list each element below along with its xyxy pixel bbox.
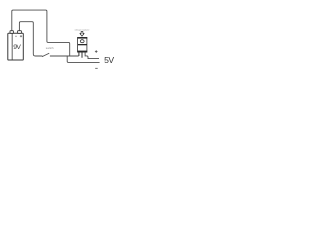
regulator middle leg: [81, 52, 83, 58]
svg-text:voltage regulator: voltage regulator: [75, 29, 90, 32]
svg-text:5V: 5V: [104, 55, 114, 65]
battery terminal nubs: [10, 31, 13, 34]
battery BT1 body: [8, 33, 23, 60]
switch lever: [42, 53, 49, 56]
battery minus mark: [15, 35, 16, 37]
battery plus mark: [20, 35, 22, 37]
wire: branch down to negative output rail: [67, 56, 99, 62]
svg-text:9V: 9V: [13, 44, 21, 51]
battery side seam: [11, 33, 13, 60]
regulator left leg: [78, 52, 80, 56]
voltage regulator U1 body (TO-220): [77, 37, 87, 52]
wire: switch to regulator input leg: [50, 55, 79, 57]
wire: battery positive terminal up, across, down to switch: [19, 22, 42, 56]
wire: battery negative terminal up, across top, down and over to regulator input: [12, 10, 70, 56]
minus mark at output: [95, 67, 98, 69]
svg-text:switch: switch: [46, 46, 54, 50]
wire: regulator output stepping down to positive terminal: [85, 52, 99, 59]
plus mark at output: [95, 50, 98, 53]
down arrow above regulator: [80, 32, 84, 37]
